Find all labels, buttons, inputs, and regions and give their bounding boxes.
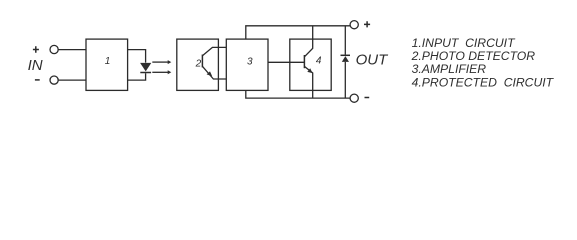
phototransistor Q1 emitter <box>202 66 226 79</box>
wire LED top stub <box>128 50 146 63</box>
box 2 photo detector <box>177 39 219 90</box>
wire input top <box>58 49 86 51</box>
transistor Q2 emitter <box>304 66 312 98</box>
svg-text:OUT: OUT <box>356 52 390 69</box>
box 4 protected circuit <box>290 39 331 90</box>
wire input bottom <box>58 79 86 81</box>
svg-text:2: 2 <box>195 58 202 69</box>
transistor Q2 base bar <box>303 55 305 68</box>
input terminal + <box>50 45 58 53</box>
LED D1 cathode bar <box>140 72 151 74</box>
phototransistor Q1 collector <box>202 47 226 55</box>
zener diode D2 triangle <box>342 56 349 62</box>
svg-text:4.PROTECTED CIRCUIT: 4.PROTECTED CIRCUIT <box>412 76 555 90</box>
output terminal - <box>350 94 358 102</box>
svg-text:4: 4 <box>316 56 322 67</box>
label + (output plus) <box>364 21 370 27</box>
wire LED bottom stub <box>128 73 146 80</box>
phototransistor Q1 emitter arrow <box>207 71 213 76</box>
box 1 input circuit <box>86 39 128 90</box>
zener diode D2 cathode bar <box>341 54 351 56</box>
label + (input plus) <box>33 46 39 52</box>
svg-text:1: 1 <box>105 56 111 67</box>
light arrow bottom <box>152 71 168 73</box>
transistor Q2 emitter arrow <box>307 68 312 73</box>
LED D1 triangle <box>140 63 151 72</box>
wire bottom rail <box>246 90 350 98</box>
svg-text:3.AMPLIFIER: 3.AMPLIFIER <box>412 62 487 76</box>
output terminal + <box>350 21 358 29</box>
label - (output minus) <box>365 97 370 99</box>
label - (input minus) <box>35 79 40 81</box>
svg-text:3: 3 <box>247 57 253 68</box>
svg-text:IN: IN <box>28 57 43 74</box>
svg-text:2.PHOTO DETECTOR: 2.PHOTO DETECTOR <box>411 49 536 63</box>
input terminal - <box>50 76 58 84</box>
transistor Q2 collector <box>304 26 312 57</box>
wire base of Q2 <box>268 61 304 63</box>
zener diode D2 top lead <box>344 26 346 55</box>
wire top rail <box>246 26 350 39</box>
light arrow top <box>152 61 168 63</box>
zener diode D2 bottom lead <box>344 62 346 98</box>
box 3 amplifier <box>226 39 268 90</box>
phototransistor Q1 base bar <box>201 55 203 68</box>
